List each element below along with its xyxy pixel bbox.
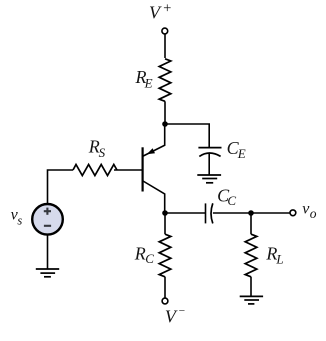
node O (output junction) bbox=[248, 210, 254, 216]
svg-text:+: + bbox=[162, 1, 172, 17]
emitter arrow (pnp) bbox=[147, 148, 155, 154]
wire RL to ground bbox=[250, 277, 252, 297]
wire node O to RL bbox=[250, 213, 252, 234]
ground (RL) bbox=[240, 296, 263, 304]
svg-text:E: E bbox=[144, 75, 153, 90]
emitter lead bbox=[143, 124, 165, 156]
label CE bbox=[227, 138, 246, 161]
plus sign bbox=[44, 208, 51, 215]
label RC bbox=[134, 243, 154, 266]
wire CC to node O bbox=[213, 212, 251, 214]
svg-text:C: C bbox=[145, 251, 154, 266]
terminal vo bbox=[290, 210, 296, 216]
resistor RC bbox=[159, 234, 171, 277]
terminal V- bbox=[162, 298, 168, 304]
label vo bbox=[302, 201, 317, 221]
resistor RL bbox=[245, 234, 257, 277]
node E (emitter junction) bbox=[162, 121, 168, 127]
wire RC to V- terminal bbox=[164, 277, 166, 298]
svg-text:s: s bbox=[17, 213, 22, 227]
capacitor CC bbox=[206, 203, 213, 223]
resistor RS bbox=[73, 165, 117, 176]
svg-text:E: E bbox=[237, 146, 246, 161]
svg-text:C: C bbox=[227, 193, 236, 208]
node C (collector junction) bbox=[162, 210, 168, 216]
resistor RE bbox=[159, 59, 171, 102]
label CC bbox=[217, 186, 236, 208]
transistor Q1 (pnp) bbox=[143, 124, 165, 213]
label RL bbox=[265, 244, 283, 267]
minus sign bbox=[44, 225, 51, 227]
wire vs to RS bbox=[48, 170, 74, 204]
wire RS to base bbox=[114, 169, 142, 171]
ground (CE) bbox=[197, 175, 221, 183]
svg-text:−: − bbox=[178, 306, 186, 318]
wire node C to RC bbox=[164, 213, 166, 234]
wire node E to CE bbox=[165, 124, 209, 148]
source vs bbox=[32, 204, 63, 235]
ground (vs) bbox=[36, 269, 59, 277]
label V+ bbox=[149, 1, 172, 23]
wire CE to ground bbox=[208, 154, 210, 175]
svg-text:V: V bbox=[165, 306, 178, 326]
wire node O to vo terminal bbox=[251, 212, 290, 214]
svg-text:R: R bbox=[134, 243, 146, 263]
collector lead bbox=[143, 181, 165, 213]
terminal V+ bbox=[162, 28, 168, 34]
label V- bbox=[165, 306, 186, 327]
svg-text:V: V bbox=[149, 3, 162, 23]
wire RE to node E bbox=[164, 101, 166, 124]
wire vs to ground bbox=[47, 235, 49, 269]
label RS bbox=[88, 136, 106, 160]
svg-text:L: L bbox=[275, 252, 283, 267]
capacitor CE bbox=[198, 148, 221, 157]
svg-text:S: S bbox=[99, 145, 106, 160]
label RE bbox=[135, 67, 153, 91]
svg-text:o: o bbox=[310, 206, 317, 221]
label vs bbox=[11, 207, 23, 228]
wire node C to CC bbox=[165, 212, 206, 214]
wire V+ to RE bbox=[164, 34, 166, 58]
base bar bbox=[142, 147, 144, 191]
